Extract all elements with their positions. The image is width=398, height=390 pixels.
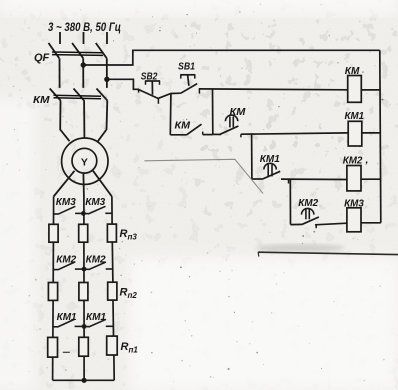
wire: KM1 timed contact to coil KM2 (line C) xyxy=(281,178,347,180)
wire: phase L2 QF to KM xyxy=(82,58,84,88)
wire: branch down from line A at x213 xyxy=(212,89,214,135)
wire: control feed from L2 to top rail xyxy=(83,50,380,65)
contact KM1 pole b xyxy=(84,319,113,327)
svg-text:QF: QF xyxy=(34,52,50,64)
junction rotor star point xyxy=(82,378,87,383)
wire: phase L1 top stub xyxy=(59,32,61,44)
resistor Rp3 element 3 xyxy=(107,224,116,242)
resistor Rp3 element 2 xyxy=(79,224,88,242)
wire: phase L3 top stub xyxy=(106,32,108,44)
coil KM3 xyxy=(347,208,361,232)
circuit breaker QF linkage bar xyxy=(52,52,103,55)
wire: rotor lead 2 xyxy=(82,174,85,197)
resistor Rp2 element 1 xyxy=(48,283,57,301)
wire: coil KM1 right stub xyxy=(362,132,380,134)
contact KM auxiliary (self-hold) xyxy=(170,124,213,135)
circuit breaker QF pole 3 blade xyxy=(96,43,107,58)
svg-text:КМ: КМ xyxy=(33,94,50,106)
stray dash mark xyxy=(63,351,70,353)
button SB1 (NO pushbutton) xyxy=(180,75,199,94)
contactor KM pole 2 blade xyxy=(74,89,85,101)
crease line (scan artifact) xyxy=(144,159,263,193)
svg-text:КМ: КМ xyxy=(230,106,246,118)
svg-text:3 ~ 380 В, 50 Гц: 3 ~ 380 В, 50 Гц xyxy=(48,22,121,34)
contact KM2 timed (time-delay closing) xyxy=(291,208,319,228)
wire: coil KM2 right stub xyxy=(361,178,380,180)
contact KM1 timed (time-delay closing) xyxy=(252,163,289,183)
svg-text:Y: Y xyxy=(81,156,88,168)
bottom stray line (scan artifact) xyxy=(258,252,398,254)
junction on L2 for control feed xyxy=(81,62,86,67)
contactor KM pole 3 blade xyxy=(97,89,108,101)
contactor KM pole 1 blade xyxy=(50,89,61,101)
circuit breaker QF pole 1 blade xyxy=(49,43,60,58)
resistor Rp3 element 1 xyxy=(49,224,58,242)
wire: branch down from line C at x290 xyxy=(289,179,291,224)
svg-text:КМ3: КМ3 xyxy=(85,196,105,208)
wire: rotor rail 2 segments xyxy=(83,197,85,381)
coil KM2 xyxy=(347,166,361,191)
wire: phase L2 top stub xyxy=(83,32,85,44)
coil KM xyxy=(348,76,362,103)
svg-text:SB1: SB1 xyxy=(178,61,195,72)
wire: branch down from line B at x251 xyxy=(251,134,253,179)
wire: rotor bottom joining bar xyxy=(53,379,115,381)
contact KM3 pole b xyxy=(83,206,112,214)
resistor Rp1 element 3 xyxy=(107,336,118,355)
wire: right supply rail xyxy=(380,50,381,223)
resistor Rp1 element 2 xyxy=(79,337,89,356)
coil KM1 xyxy=(348,121,362,146)
svg-text:КМ1: КМ1 xyxy=(345,110,365,122)
wire: phase L3 QF to KM xyxy=(106,58,108,88)
wire: KM2 timed contact to coil KM3 (line D) xyxy=(315,223,347,225)
resistor Rp2 element 3 xyxy=(108,282,117,300)
svg-text:КМ2: КМ2 xyxy=(298,197,318,209)
wire: motor feed phase 3 xyxy=(98,101,107,141)
contact KM1 pole a xyxy=(53,319,84,327)
svg-text:,: , xyxy=(365,154,369,166)
smudge above bottom stray line xyxy=(255,244,345,252)
junction KM2 row xyxy=(82,267,87,272)
wire: rotor rail 3 segments xyxy=(112,197,114,381)
contact KM timed (time-delay closing) xyxy=(213,115,241,137)
svg-text:КМ2: КМ2 xyxy=(56,254,76,266)
wire: SB2 to SB1 xyxy=(158,93,180,98)
circuit breaker QF pole 2 blade xyxy=(72,43,83,58)
contactor KM linkage bar xyxy=(54,95,102,99)
wire: SB1 to coil KM (line A) xyxy=(199,88,348,91)
svg-text:КМ: КМ xyxy=(175,120,191,132)
wire: coil KM3 right stub xyxy=(361,222,381,224)
junction KM1 row xyxy=(82,324,87,329)
wire: motor feed phase 2 xyxy=(83,101,85,138)
svg-text:КМ3: КМ3 xyxy=(56,196,76,208)
wire: control feed from L3 to SB2 xyxy=(107,79,139,89)
wire: rotor lead 1 xyxy=(54,171,75,197)
button SB2 (NC pushbutton) xyxy=(139,81,161,104)
wire: phase L1 QF to KM xyxy=(59,58,61,88)
contact KM2 pole a xyxy=(53,262,84,270)
wire: KM timed contact to coil KM1 (line B) xyxy=(241,133,348,134)
wire: self-hold branch down from SB1 left terminal xyxy=(169,94,172,135)
resistor Rp2 element 2 xyxy=(79,283,88,301)
contact KM3 pole a xyxy=(54,206,84,214)
junction KM3 row xyxy=(81,211,86,216)
svg-text:КМ1: КМ1 xyxy=(57,311,77,323)
contact KM2 pole b xyxy=(84,262,113,270)
resistor Rp1 element 1 xyxy=(48,337,58,357)
wire: motor feed phase 1 xyxy=(60,101,69,141)
wire: rotor lead 3 xyxy=(93,171,112,197)
motor M stator circle xyxy=(62,138,108,184)
wire: coil KM right stub xyxy=(361,89,380,91)
junction on L3 for control feed xyxy=(104,77,109,82)
wire: rotor rail 1 segments xyxy=(53,197,54,381)
motor M rotor circle xyxy=(72,148,97,173)
